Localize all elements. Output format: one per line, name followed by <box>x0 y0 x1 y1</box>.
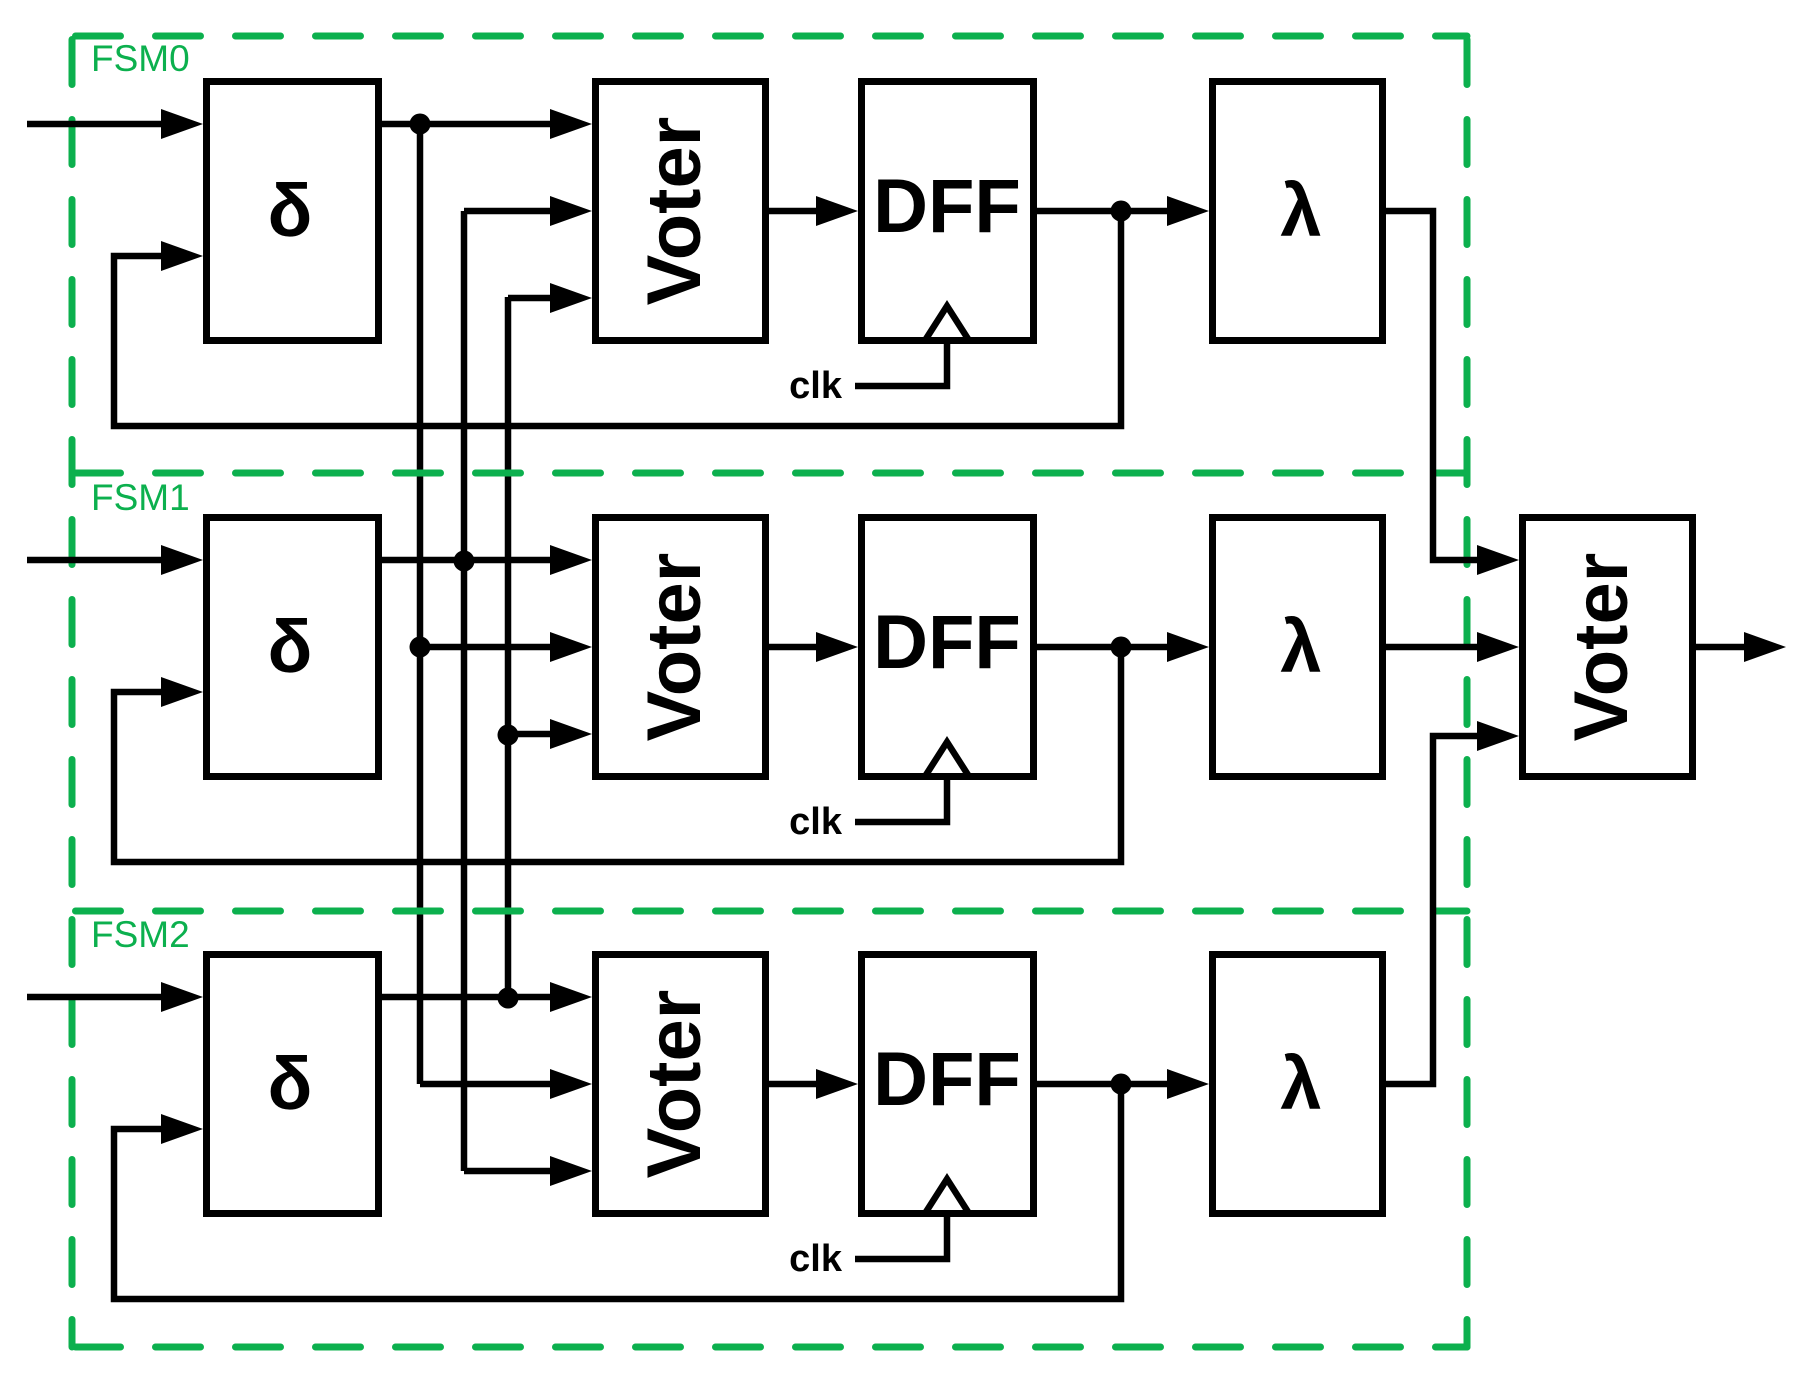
svg-text:λ: λ <box>1280 605 1321 688</box>
svg-text:clk: clk <box>789 365 843 407</box>
svg-text:δ: δ <box>268 1042 313 1125</box>
svg-text:DFF: DFF <box>873 600 1021 685</box>
svg-text:DFF: DFF <box>873 1037 1021 1122</box>
svg-text:FSM2: FSM2 <box>91 914 190 955</box>
svg-text:λ: λ <box>1280 169 1321 252</box>
svg-text:clk: clk <box>789 1238 843 1280</box>
svg-text:λ: λ <box>1280 1042 1321 1125</box>
svg-text:Voter: Voter <box>632 990 717 1179</box>
svg-text:FSM0: FSM0 <box>91 38 190 79</box>
svg-text:Voter: Voter <box>632 117 717 306</box>
svg-text:δ: δ <box>268 169 313 252</box>
svg-text:Voter: Voter <box>1559 553 1644 742</box>
svg-text:δ: δ <box>268 605 313 688</box>
svg-text:DFF: DFF <box>873 164 1021 249</box>
svg-text:FSM1: FSM1 <box>91 477 190 518</box>
svg-text:Voter: Voter <box>632 553 717 742</box>
svg-text:clk: clk <box>789 801 843 843</box>
